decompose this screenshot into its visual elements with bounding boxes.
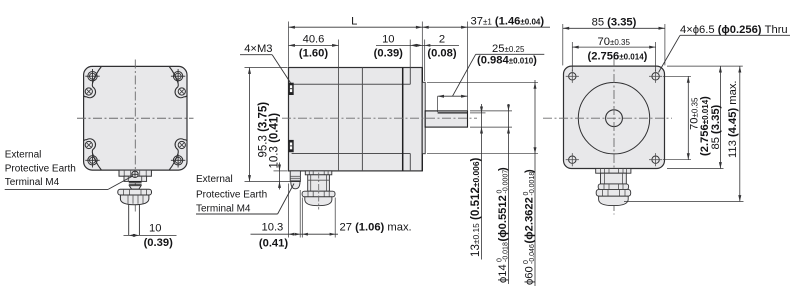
dimension phi14 (0.5512) shaft diameter, rotated (470, 110, 512, 112)
right view bolt holes 4x phi6.5 (569, 73, 576, 80)
right view gland ring (596, 189, 631, 196)
dimension 40.6 (1.60) terminal box length (338, 40, 340, 68)
svg-text:10: 10 (149, 222, 161, 234)
middle view horizontal centerline (282, 117, 477, 119)
dimension 13 (0.512) shaft flat height, rotated (470, 112, 486, 114)
left view dimension 10 (0.39) cable diameter (124, 234, 177, 236)
dimension 10.3 (0.41) earth terminal offset (288, 184, 290, 238)
svg-text:ϕ14: ϕ14 (497, 264, 509, 283)
svg-text:10: 10 (382, 34, 394, 46)
svg-text:4×M3: 4×M3 (244, 43, 272, 55)
svg-text:(0.39): (0.39) (144, 237, 173, 249)
dimension 113 (4.45) max. overall height, rotated (624, 201, 744, 203)
middle view earth terminal leader line (196, 213, 278, 215)
svg-text:ϕ60: ϕ60 (524, 266, 536, 285)
middle view gland cylinder (308, 175, 330, 191)
svg-text:External: External (196, 174, 233, 185)
svg-text:): ) (524, 169, 536, 173)
svg-text:Protective Earth: Protective Earth (5, 163, 76, 174)
svg-text:113 (4.45) max.: 113 (4.45) max. (727, 80, 739, 158)
middle view earth terminal block (290, 171, 300, 182)
dimension 70±0.35 (2.756±0.014) bolt spacing right, rotated (663, 75, 691, 77)
middle view motor can upper edge (292, 83, 411, 85)
dimension 10.3 (0.41) box bottom height (274, 170, 288, 172)
left view horizontal centerline (77, 117, 194, 119)
svg-text:40.6: 40.6 (303, 34, 325, 46)
svg-text:Terminal M4: Terminal M4 (196, 204, 251, 215)
svg-text:-0.0007: -0.0007 (503, 170, 510, 194)
middle view shaft (425, 111, 467, 127)
middle view gland dome (305, 197, 332, 206)
svg-text:-0.0018: -0.0018 (529, 172, 536, 196)
svg-text:): ) (497, 167, 509, 171)
middle view gland ring nut (302, 191, 335, 197)
svg-text:(ϕ2.3622: (ϕ2.3622 (524, 197, 536, 243)
svg-text:37±1 (1.46±0.04): 37±1 (1.46±0.04) (471, 15, 545, 27)
dimension 2 (0.08) pilot boss height (424, 40, 426, 82)
dimension 70±0.35 (2.756±0.014) bolt spacing top (571, 42, 573, 71)
middle view motor body (289, 68, 423, 171)
left view vertical centerline (134, 60, 136, 212)
left view earth terminal leader line (5, 188, 108, 190)
left view earth terminal washer stack (129, 181, 142, 183)
right view gland cylinder (601, 173, 627, 184)
right view gland nut (598, 184, 628, 190)
svg-text:85 (3.35): 85 (3.35) (592, 16, 637, 28)
left view cable (128, 205, 130, 236)
svg-text:Protective Earth: Protective Earth (196, 189, 267, 200)
svg-text:-0.018: -0.018 (503, 242, 510, 262)
left view gland mid section (124, 176, 147, 181)
left view gland nut ring (118, 189, 152, 195)
dimension 10 (0.39) flange thickness (409, 40, 411, 68)
dimension 25±0.25 (0.984±0.010) shaft flat length (437, 96, 439, 112)
middle view M3 tab bottom (289, 140, 294, 152)
svg-text:(ϕ0.5512: (ϕ0.5512 (497, 195, 509, 241)
right view gland flange (596, 169, 631, 174)
svg-text:10.3: 10.3 (262, 221, 284, 233)
right view pilot circle phi60 (578, 83, 649, 154)
middle view seam line 1 (terminal box joint) (338, 68, 340, 171)
middle view M3 tab top (289, 83, 294, 95)
right view horizontal centerline (543, 117, 672, 119)
middle view seam line 2 (361, 68, 363, 171)
left view: terminal box rear cover body (84, 66, 187, 170)
svg-text:4×ϕ6.5 (ϕ0.256) Thru: 4×ϕ6.5 (ϕ0.256) Thru (680, 24, 788, 36)
svg-text:-0.046: -0.046 (529, 244, 536, 264)
dimension 37±1 (1.46±0.04) shaft length (467, 22, 469, 112)
svg-text:(2.756±0.014): (2.756±0.014) (588, 50, 648, 62)
svg-text:(0.08): (0.08) (427, 47, 456, 59)
left view external earth terminal screw head (132, 171, 138, 177)
svg-text:2: 2 (439, 34, 445, 46)
right view shaft circle phi14 (606, 110, 623, 127)
middle view gland flange (305, 171, 332, 175)
left view corner screws detail (4 corners) (84, 67, 102, 98)
svg-text:27 (1.06) max.: 27 (1.06) max. (340, 221, 412, 233)
middle view shaft flat edge (438, 112, 468, 114)
dimension L overall length (288, 22, 290, 67)
middle view gland centerline (318, 173, 320, 210)
svg-text:(1.60): (1.60) (299, 47, 328, 59)
middle view earth terminal screw dome (291, 182, 300, 189)
svg-text:L: L (351, 15, 357, 27)
svg-text:(0.41): (0.41) (259, 237, 288, 249)
svg-text:(0.984±0.010): (0.984±0.010) (477, 55, 537, 67)
dimension 85 (3.35) width top (562, 24, 564, 65)
right view mounting flange face (564, 66, 665, 168)
dimension 85 (3.35) height right, rotated (667, 65, 743, 67)
svg-text:External: External (5, 150, 42, 161)
middle view front flange right edge (421, 68, 423, 171)
left view gland dome (120, 195, 148, 205)
svg-text:13±0.15 (0.512±0.006): 13±0.15 (0.512±0.006) (469, 158, 482, 257)
middle view motor can lower edge (292, 153, 411, 155)
right view gland dome (599, 196, 629, 205)
svg-text:25±0.25: 25±0.25 (492, 43, 525, 55)
svg-text:Terminal M4: Terminal M4 (5, 177, 60, 188)
svg-text:(0.39): (0.39) (374, 47, 403, 59)
svg-text:70±0.35: 70±0.35 (598, 36, 631, 48)
svg-text:10.3 (0.41): 10.3 (0.41) (269, 113, 281, 169)
middle view pilot boss (422, 82, 425, 153)
right view vertical centerline (613, 58, 615, 215)
dimension 27 (1.06) max. gland width (301, 198, 303, 238)
dimension 95.3 (3.75) overall height (245, 67, 288, 69)
dimension phi60 (2.3622) pilot diameter, rotated (427, 81, 538, 83)
middle view seam line 3 (front end bell, dark) (402, 68, 404, 171)
left view cable gland flange (119, 170, 151, 176)
svg-text:85 (3.35): 85 (3.35) (710, 104, 722, 149)
